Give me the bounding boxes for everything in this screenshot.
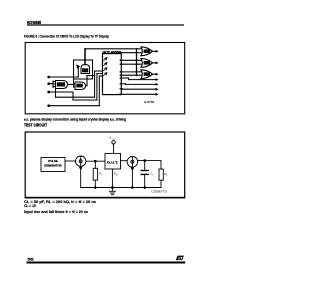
svg-text:PULSE: PULSE	[48, 159, 58, 163]
svg-text:a.c. plasma display connection: a.c. plasma display connection using liq…	[24, 117, 126, 121]
svg-text:5/8: 5/8	[28, 258, 34, 262]
svg-text:HCF4056B: HCF4056B	[27, 20, 41, 25]
svg-text:D.U.T.: D.U.T.	[107, 161, 118, 165]
svg-text:L: L	[167, 175, 169, 177]
svg-text:ST: ST	[178, 257, 184, 261]
svg-text:CC: CC	[112, 138, 116, 140]
svg-text:CL = 15: CL = 15	[24, 204, 36, 208]
svg-text:HCF 4056B: HCF 4056B	[103, 50, 122, 54]
svg-text:L: L	[152, 174, 154, 176]
svg-text:Input rise and fall times tr =: Input rise and fall times tr = tf = 20 n…	[24, 210, 88, 214]
svg-text:CS08770: CS08770	[151, 190, 167, 194]
svg-text:T: T	[101, 174, 103, 176]
svg-text:GENERATOR: GENERATOR	[44, 163, 61, 167]
svg-text:IN: IN	[116, 174, 119, 176]
svg-text:S-8706: S-8706	[144, 100, 155, 104]
svg-text:FIGURE 8 : Connection Of CMOS: FIGURE 8 : Connection Of CMOS To LCD Dis…	[24, 35, 110, 39]
svg-text:TEST CIRCUIT: TEST CIRCUIT	[24, 123, 47, 128]
